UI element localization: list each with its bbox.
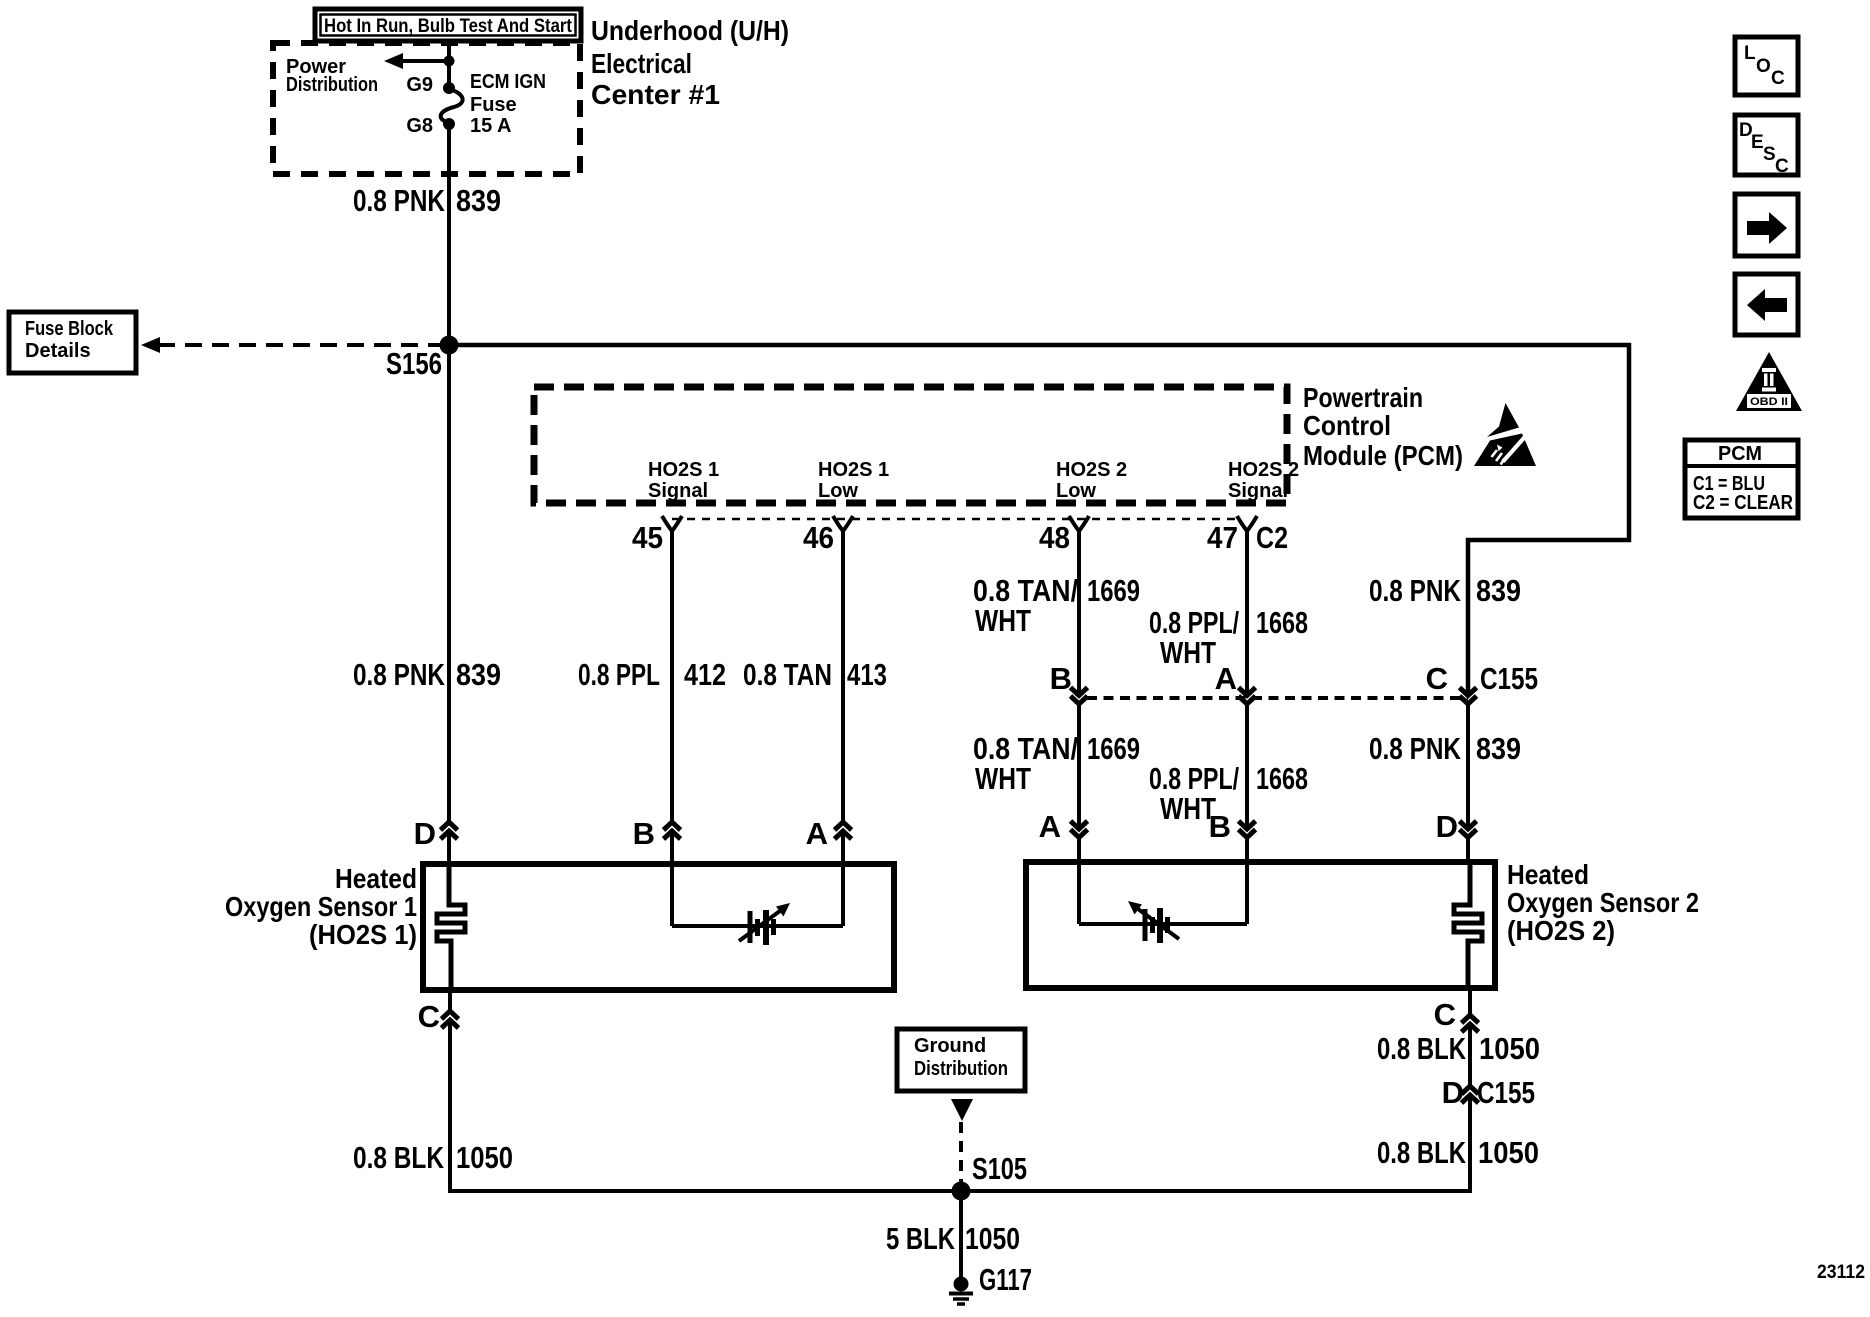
HO2S2 pin B mark [1209, 809, 1256, 844]
HO2S2 sensor cell wires [1077, 862, 1081, 924]
svg-text:D: D [1442, 1075, 1464, 1110]
svg-text:WHT: WHT [1160, 635, 1216, 670]
connector C155 dashed line [1087, 696, 1468, 700]
wire: C155 B to HO2S2 pin A (0.8 TAN/WHT 1669) [1077, 704, 1081, 829]
svg-text:1050: 1050 [1479, 1031, 1540, 1066]
svg-text:D: D [1436, 809, 1458, 844]
wire: pin 45 to HO2S1 pin B (0.8 PPL 412) [670, 531, 674, 822]
svg-text:Electrical: Electrical [591, 48, 692, 79]
svg-text:1050: 1050 [456, 1140, 513, 1175]
svg-text:WHT: WHT [975, 761, 1031, 796]
terminal G9 dot [443, 82, 455, 94]
svg-text:L: L [1744, 43, 1756, 64]
LOC icon [1735, 37, 1798, 95]
svg-text:A: A [1215, 661, 1237, 696]
svg-text:0.8 TAN: 0.8 TAN [743, 657, 832, 692]
svg-text:23112: 23112 [1817, 1262, 1865, 1283]
C155 pin A mark [1215, 661, 1256, 704]
wires from marks into HO2S1 box [447, 832, 451, 866]
Ground Distribution box [897, 1029, 1025, 1091]
svg-text:B: B [1209, 809, 1231, 844]
svg-text:Details: Details [25, 340, 91, 362]
HO2S1 pin C mark [418, 990, 459, 1034]
HO2S2 pin C mark [1434, 988, 1479, 1032]
svg-text:HO2S 1: HO2S 1 [818, 459, 889, 481]
svg-text:1669: 1669 [1087, 573, 1140, 608]
svg-text:Oxygen Sensor 2: Oxygen Sensor 2 [1507, 887, 1699, 918]
connector C155 pin D mark [1442, 1025, 1535, 1110]
HO2S1 heater element [437, 864, 465, 990]
ESD sensitivity icon [1474, 403, 1536, 466]
svg-text:Distribution: Distribution [914, 1058, 1008, 1080]
DESC icon [1735, 115, 1798, 177]
pin 48 connector fork [1039, 516, 1089, 555]
svg-text:B: B [1050, 661, 1072, 696]
svg-text:A: A [1039, 809, 1061, 844]
svg-text:C: C [1775, 156, 1789, 177]
svg-text:Low: Low [818, 480, 858, 502]
arrow to Power Distribution [384, 53, 449, 69]
svg-text:S156: S156 [386, 346, 442, 381]
svg-text:413: 413 [847, 657, 887, 692]
svg-text:Powertrain: Powertrain [1303, 382, 1423, 413]
wire: C155 D down to S105 (0.8 BLK 1050) [961, 1096, 1470, 1191]
svg-text:46: 46 [803, 520, 834, 555]
wires from marks into HO2S2 box [1077, 838, 1081, 862]
wire label 0.8 PNK 839 (right upper) [1369, 573, 1521, 608]
svg-text:A: A [806, 816, 828, 851]
svg-text:15 A: 15 A [470, 115, 512, 137]
svg-text:O: O [1756, 56, 1771, 77]
svg-text:WHT: WHT [975, 603, 1031, 638]
svg-text:412: 412 [684, 657, 726, 692]
power feed box: Hot In Run, Bulb Test And Start [315, 9, 581, 41]
HO2S1 sensor cell (variable galvanic cell) [739, 903, 790, 945]
svg-text:Distribution: Distribution [286, 74, 378, 96]
svg-text:0.8 PNK: 0.8 PNK [353, 657, 445, 692]
svg-text:G117: G117 [979, 1262, 1032, 1297]
PCM connector legend [1685, 440, 1798, 518]
dashed arrow to Fuse Block Details [141, 337, 449, 353]
svg-text:0.8 BLK: 0.8 BLK [1377, 1135, 1466, 1170]
svg-text:839: 839 [1476, 573, 1521, 608]
C155 pin B mark [1050, 661, 1088, 704]
wire from feed into fuse [447, 43, 451, 86]
wire: C155 C to HO2S2 pin D (0.8 PNK 839) [1466, 704, 1470, 829]
svg-text:0.8 BLK: 0.8 BLK [353, 1140, 444, 1175]
pin 47 connector fork [1207, 516, 1288, 555]
svg-text:OBD II: OBD II [1750, 396, 1788, 408]
Fuse Block Details box [9, 312, 136, 373]
svg-text:C: C [1426, 661, 1448, 696]
wire: S105 to G117 (5 BLK 1050) [959, 1191, 963, 1279]
svg-text:(HO2S 2): (HO2S 2) [1507, 915, 1615, 946]
OBD II icon [1736, 352, 1802, 411]
HO2S1 pin A mark [806, 816, 852, 851]
wire: C155 A to HO2S2 pin B (0.8 PPL/WHT 1668) [1245, 704, 1249, 829]
HO2S2 pin A mark [1039, 809, 1088, 844]
wire label 0.8 PNK 839 (top) [353, 183, 501, 218]
svg-text:C155: C155 [1480, 661, 1538, 696]
wire label 0.8 PNK 839 (left mid) [353, 657, 501, 692]
HO2S1 sensor cell wires [670, 864, 674, 926]
arrow from Ground Distribution [951, 1099, 973, 1121]
svg-text:48: 48 [1039, 520, 1070, 555]
svg-text:45: 45 [632, 520, 663, 555]
svg-text:1669: 1669 [1087, 731, 1140, 766]
svg-text:Heated: Heated [335, 863, 417, 894]
pin 45 connector fork [632, 516, 682, 555]
svg-text:C: C [1771, 68, 1785, 89]
HO2S2 heater element [1454, 862, 1482, 988]
HO2S1 pin B mark [633, 816, 681, 851]
svg-text:PCM: PCM [1718, 443, 1762, 465]
back arrow icon [1735, 274, 1798, 335]
ground G117 [949, 1262, 1032, 1304]
svg-text:0.8 PNK: 0.8 PNK [1369, 573, 1461, 608]
underhood electrical center dashed box [273, 43, 580, 174]
wire: HO2S1 C down to S105 (0.8 BLK 1050) [450, 1021, 961, 1191]
svg-text:0.8 PPL: 0.8 PPL [578, 657, 660, 692]
HO2S2 sensor cell (variable galvanic cell) [1128, 901, 1179, 943]
forward arrow icon [1735, 194, 1798, 256]
svg-text:Underhood (U/H): Underhood (U/H) [591, 15, 789, 46]
wire: pin 46 to HO2S1 pin A (0.8 TAN 413) [841, 531, 845, 822]
pin 46 connector fork [803, 516, 853, 555]
svg-text:Oxygen Sensor 1: Oxygen Sensor 1 [225, 891, 417, 922]
Heated Oxygen Sensor 1 box [423, 864, 894, 990]
svg-text:E: E [1751, 132, 1764, 153]
Heated Oxygen Sensor 1 label [225, 863, 417, 950]
svg-text:Control: Control [1303, 410, 1391, 441]
svg-text:Ground: Ground [914, 1035, 986, 1057]
svg-text:0.8 PNK: 0.8 PNK [1369, 731, 1461, 766]
wire: pin 47 to C155 pin A (0.8 PPL/WHT 1668) [1245, 531, 1249, 695]
svg-text:5 BLK: 5 BLK [886, 1221, 955, 1256]
wire label 0.8 BLK 1050 (right upper) [1377, 1031, 1540, 1066]
svg-text:839: 839 [1476, 731, 1521, 766]
svg-text:HO2S 2: HO2S 2 [1056, 459, 1127, 481]
HO2S1 pin D mark [414, 816, 458, 851]
Underhood Electrical Center #1 label [591, 15, 789, 110]
svg-text:Low: Low [1056, 480, 1096, 502]
HO2S2 pin D mark [1436, 809, 1477, 844]
svg-text:Signal: Signal [648, 480, 708, 502]
svg-text:1050: 1050 [965, 1221, 1020, 1256]
svg-text:S: S [1763, 144, 1776, 165]
svg-text:Center #1: Center #1 [591, 79, 720, 110]
svg-text:Fuse Block: Fuse Block [25, 318, 114, 340]
svg-text:B: B [633, 816, 655, 851]
svg-text:Fuse: Fuse [470, 94, 517, 116]
dashed wire to S105 [959, 1122, 963, 1186]
svg-text:1668: 1668 [1256, 605, 1308, 640]
Power Distribution label [286, 56, 378, 96]
wire: fuse output down to S156 [447, 126, 451, 345]
PCM C2 connector dotted line [672, 518, 1238, 521]
svg-text:HO2S 1: HO2S 1 [648, 459, 719, 481]
svg-text:S105: S105 [972, 1151, 1027, 1186]
svg-text:1050: 1050 [1478, 1135, 1539, 1170]
svg-text:C: C [1434, 997, 1456, 1032]
PCM pin name labels [648, 459, 719, 502]
Heated Oxygen Sensor 2 box [1026, 862, 1495, 988]
svg-text:1668: 1668 [1256, 761, 1308, 796]
svg-text:Hot In Run, Bulb Test And Star: Hot In Run, Bulb Test And Start [324, 16, 573, 37]
svg-text:C155: C155 [1477, 1075, 1535, 1110]
wire: S156 down to HO2S1 pin D [447, 345, 451, 822]
svg-text:C2: C2 [1256, 520, 1288, 555]
svg-text:G9: G9 [406, 74, 433, 96]
PCM dashed box [534, 387, 1287, 503]
svg-text:C2 = CLEAR: C2 = CLEAR [1693, 492, 1793, 514]
wire: pin 48 to C155 pin B (0.8 TAN/WHT 1669) [1077, 531, 1081, 695]
splice node S156 [440, 336, 459, 355]
Heated Oxygen Sensor 2 label [1507, 859, 1699, 946]
fuse name label ECM IGN Fuse 15 A [470, 71, 546, 137]
svg-text:C: C [418, 999, 440, 1034]
svg-text:Module (PCM): Module (PCM) [1303, 440, 1463, 471]
splice node S105 [952, 1182, 971, 1201]
svg-text:839: 839 [456, 183, 501, 218]
wire: S156 right and down to C155 pin C (0.8 PNK 839) [449, 345, 1629, 695]
svg-text:Signal: Signal [1228, 480, 1288, 502]
svg-text:0.8 BLK: 0.8 BLK [1377, 1031, 1466, 1066]
terminal G8 dot [443, 118, 455, 130]
svg-text:47: 47 [1207, 520, 1238, 555]
fuse ECM IGN 15A element [441, 89, 463, 123]
junction dot at arrow tap [444, 56, 455, 67]
svg-text:G8: G8 [406, 115, 433, 137]
svg-text:HO2S 2: HO2S 2 [1228, 459, 1299, 481]
Powertrain Control Module (PCM) label [1303, 382, 1463, 471]
svg-text:ECM IGN: ECM IGN [470, 71, 546, 93]
C155 pin C mark [1426, 661, 1538, 704]
svg-text:0.8 PNK: 0.8 PNK [353, 183, 445, 218]
svg-text:Heated: Heated [1507, 859, 1589, 890]
svg-text:839: 839 [456, 657, 501, 692]
svg-text:D: D [414, 816, 436, 851]
svg-text:(HO2S 1): (HO2S 1) [309, 919, 417, 950]
